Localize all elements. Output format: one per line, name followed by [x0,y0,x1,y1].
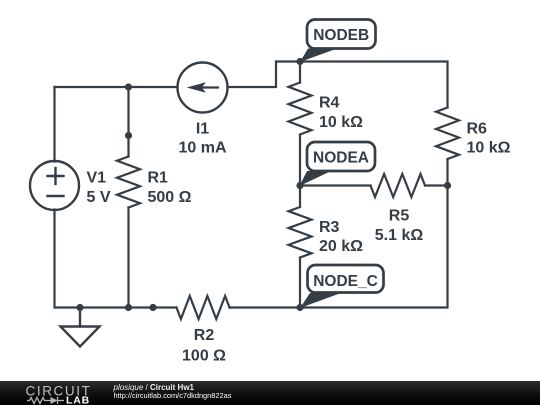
svg-text:V1: V1 [87,170,107,187]
footer logo resistor-diode glyph [27,397,64,404]
svg-text:NODE_C: NODE_C [313,273,378,290]
voltage source V1 circle [30,161,79,210]
I1 arrow shaft [199,86,218,88]
wire R4 top lead [299,62,301,83]
svg-text:10 kΩ: 10 kΩ [319,114,363,131]
resistor R5 [371,174,426,197]
wire top-left horizontal (V1+ to I1 left) [55,86,178,88]
node NODEA flag pointer [300,171,332,186]
V1 minus sign [48,195,64,197]
wire left vertical (top wire down to V1 top) [53,87,55,162]
ground stem [79,308,81,327]
svg-text:R3: R3 [319,219,340,236]
wire R1 branch (top tap down to R1) [127,87,129,157]
wire I1 right to NODEB rail (jog up) [228,62,301,88]
I1 arrowhead [187,82,207,93]
junction dot ground tap [76,304,83,311]
junction dot NODEB [296,58,303,65]
wire R2 left lead from dot [153,306,177,308]
svg-text:R2: R2 [194,327,215,344]
wire NODEA to R5 left lead [300,184,371,186]
svg-text:500 Ω: 500 Ω [148,189,192,206]
V1 plus sign [48,168,64,196]
svg-text:http://circuitlab.com/c7dkdngn: http://circuitlab.com/c7dkdngn822as [114,391,232,400]
wire R3 top lead from NODEA [299,186,301,208]
svg-text:R6: R6 [467,121,488,138]
junction dot R1 top terminal [125,132,132,139]
node NODE_C box [308,265,384,293]
resistor R1 [117,157,140,208]
svg-text:R5: R5 [389,208,410,225]
svg-text:NODEA: NODEA [313,150,369,167]
junction dot NODE_C [296,304,303,311]
svg-text:R1: R1 [148,170,169,187]
wire R2 right lead to NODE_C [230,306,301,308]
junction dot R5/R6 right [444,182,451,189]
wire R3 bottom lead to NODE_C [299,258,301,308]
wire right rail junction down to bottom rail [300,186,448,308]
svg-text:I1: I1 [196,121,209,138]
current source I1 circle [178,63,228,113]
junction dot NODEA [296,182,303,189]
svg-text:LAB: LAB [66,395,90,405]
wire R1 bottom lead to bottom rail [127,208,129,308]
ground triangle [61,327,100,347]
resistor R2 [177,296,230,319]
node NODEA box [307,142,375,171]
svg-text:5 V: 5 V [87,189,111,206]
svg-text:20 kΩ: 20 kΩ [319,238,363,255]
wire V1 bottom to bottom rail [55,210,154,308]
wire NODEB top rail to right corner [300,62,448,108]
svg-text:R4: R4 [319,95,340,112]
svg-text:10 kΩ: 10 kΩ [467,140,511,157]
junction dot R2 left [149,304,156,311]
svg-text:NODEB: NODEB [313,27,369,44]
resistor R4 [289,83,312,135]
resistor R3 [289,207,312,258]
svg-text:10 mA: 10 mA [178,140,226,157]
wire R4 bottom lead to NODEA [299,135,301,186]
node NODEB box [307,20,376,49]
junction dot R1 bottom [125,304,132,311]
junction dot top R1 tap [125,83,132,90]
resistor R6 [436,108,459,160]
node NODEB flag pointer [300,49,337,63]
svg-text:5.1 kΩ: 5.1 kΩ [375,227,424,244]
wire R6 bottom lead to junction [446,159,448,186]
wire R5 right lead to right rail junction [425,184,448,186]
svg-text:100 Ω: 100 Ω [182,348,226,365]
node NODE_C flag pointer [300,293,341,308]
